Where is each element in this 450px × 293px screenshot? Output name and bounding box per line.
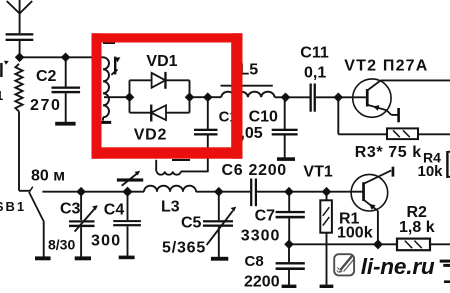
svg-text:C6 2200: C6 2200 — [222, 162, 287, 179]
svg-text:8/30: 8/30 — [48, 236, 75, 252]
svg-text:VT1: VT1 — [303, 164, 332, 181]
svg-text:10k: 10k — [418, 163, 444, 180]
svg-text:C4: C4 — [104, 201, 125, 218]
svg-text:1,8 k: 1,8 k — [399, 219, 435, 236]
svg-text:VD1: VD1 — [146, 53, 177, 70]
svg-text:C5: C5 — [181, 215, 202, 232]
svg-text:L3: L3 — [161, 199, 180, 216]
svg-text:300: 300 — [91, 232, 121, 249]
svg-text:C11: C11 — [300, 45, 329, 62]
svg-text:C8: C8 — [245, 253, 264, 270]
svg-text:SB1: SB1 — [0, 199, 26, 214]
svg-text:270: 270 — [30, 97, 62, 114]
svg-text:3300: 3300 — [241, 228, 281, 245]
svg-text:80 м: 80 м — [31, 168, 65, 185]
svg-text:C2: C2 — [36, 68, 57, 85]
svg-text:C10: C10 — [249, 109, 278, 126]
svg-text:C7: C7 — [255, 208, 276, 225]
svg-text:li-ne.ru: li-ne.ru — [361, 254, 435, 279]
svg-text:C3: C3 — [60, 201, 81, 218]
svg-text:100k: 100k — [337, 225, 373, 242]
svg-text:1: 1 — [0, 88, 3, 103]
svg-text:VD2: VD2 — [134, 126, 168, 143]
svg-text:R3* 75 k: R3* 75 k — [355, 144, 422, 161]
svg-text:5/365: 5/365 — [162, 240, 206, 257]
svg-text:0,1: 0,1 — [304, 65, 326, 82]
svg-text:VT2 П27А: VT2 П27А — [344, 58, 428, 75]
svg-text:2200: 2200 — [244, 273, 280, 290]
